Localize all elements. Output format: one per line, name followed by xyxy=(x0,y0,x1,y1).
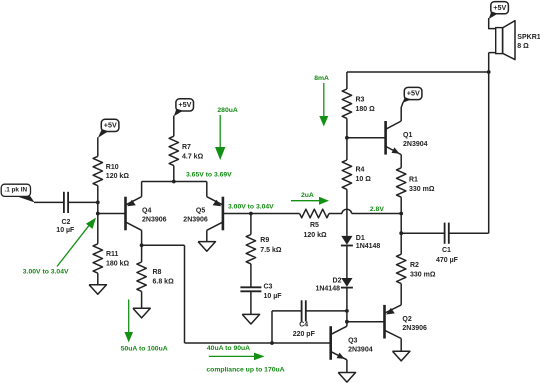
svg-text:2N3906: 2N3906 xyxy=(402,325,427,332)
transistor Q1 2N3904 xyxy=(386,121,402,155)
annotation 40uA to 90uA xyxy=(207,345,265,360)
wire C4 to diode node xyxy=(306,310,347,312)
wire R7 to rail xyxy=(173,166,175,182)
speaker SPKR1 xyxy=(496,21,515,60)
power flag +5V (R7) xyxy=(174,99,194,116)
label C1 xyxy=(436,247,459,264)
label R10 xyxy=(106,164,130,180)
wire up to C4 xyxy=(272,310,301,312)
label R7 xyxy=(182,144,204,160)
svg-text:compliance up to 170uA: compliance up to 170uA xyxy=(206,366,284,373)
svg-text:Q1: Q1 xyxy=(403,132,412,139)
wire R9 node to R5 xyxy=(251,213,300,215)
svg-text:R5: R5 xyxy=(310,222,319,229)
label D2 xyxy=(315,278,341,293)
svg-text:2N3906: 2N3906 xyxy=(142,216,167,223)
wire bottom rail to C4 xyxy=(271,311,273,343)
svg-text:3.00V to 3.04V: 3.00V to 3.04V xyxy=(23,269,69,276)
annotation 2.8V xyxy=(370,206,384,213)
node A dot (C2 junction) xyxy=(96,201,100,205)
power flag +5V (speaker) xyxy=(489,2,509,19)
node dot Q4 collector xyxy=(140,243,144,247)
svg-text:Q3: Q3 xyxy=(348,337,357,344)
wire R5 to hop xyxy=(329,213,342,215)
svg-text:C1: C1 xyxy=(442,247,451,254)
wire collector node right xyxy=(142,244,185,246)
svg-text:2.8V: 2.8V xyxy=(370,206,384,213)
svg-text:R4: R4 xyxy=(356,166,365,173)
label R4 xyxy=(356,166,372,183)
annotation 3.65V to 3.69V xyxy=(186,172,232,179)
node dot Q3 collector junction xyxy=(345,320,349,324)
wire input to C2 xyxy=(34,201,64,203)
svg-text:Q4: Q4 xyxy=(142,207,151,214)
wire node A to Q4 base xyxy=(98,213,125,215)
diode D2 1N4148 xyxy=(341,278,353,288)
annotation 280uA xyxy=(215,107,238,160)
capacitor C3 xyxy=(240,287,261,291)
label Q3 xyxy=(348,337,373,353)
resistor R2 xyxy=(397,254,406,283)
node dot output/R5 xyxy=(399,212,403,216)
svg-text:R8: R8 xyxy=(153,269,162,276)
label R11 xyxy=(106,251,130,267)
svg-text:2uA: 2uA xyxy=(301,192,314,199)
label R2 xyxy=(410,262,436,279)
wire D1 to D2 xyxy=(346,245,348,278)
label R8 xyxy=(153,269,175,285)
svg-text:SPKR1: SPKR1 xyxy=(517,34,540,41)
label C2 xyxy=(56,219,75,234)
node dot speaker/rail xyxy=(487,70,491,74)
power flag +5V (R10) xyxy=(98,119,119,138)
node dot B xyxy=(345,136,349,140)
capacitor C2 xyxy=(64,192,68,213)
label Q2 xyxy=(402,316,427,332)
svg-text:D2: D2 xyxy=(333,278,342,285)
wire node B to R4 xyxy=(346,138,348,160)
wire output node to C1 xyxy=(401,232,444,234)
label C4 xyxy=(293,322,316,339)
wire rail up to speaker xyxy=(488,53,490,72)
svg-text:280uA: 280uA xyxy=(217,107,237,114)
wire D2 to C4 node xyxy=(346,288,348,322)
svg-text:R11: R11 xyxy=(106,251,119,258)
svg-text:R3: R3 xyxy=(356,96,365,103)
node dot C4 junction xyxy=(345,309,349,313)
svg-text:40uA to 90uA: 40uA to 90uA xyxy=(207,345,250,352)
svg-text:+5V: +5V xyxy=(407,89,420,98)
wire hop over column xyxy=(342,209,352,213)
ground (C3) xyxy=(242,314,259,324)
svg-text:10 Ω: 10 Ω xyxy=(356,176,372,183)
transistor Q4 2N3906 xyxy=(126,197,142,231)
resistor R9 xyxy=(246,235,255,264)
svg-text:R2: R2 xyxy=(410,262,419,269)
svg-text:R7: R7 xyxy=(182,144,191,151)
svg-text:R9: R9 xyxy=(260,237,269,244)
ground (Q3) xyxy=(338,373,355,383)
svg-text:+5V: +5V xyxy=(178,100,191,109)
wire C3 to ground xyxy=(250,291,252,314)
svg-text:2N3904: 2N3904 xyxy=(348,346,373,353)
svg-text:C3: C3 xyxy=(264,283,273,290)
svg-text:3.00V to 3.04V: 3.00V to 3.04V xyxy=(228,204,274,211)
transistor Q3 2N3904 xyxy=(331,326,347,360)
wire Q1 collector to +5V xyxy=(401,102,403,121)
wire Q3 emitter to ground xyxy=(346,360,348,373)
wire +5V to R7 xyxy=(173,116,175,137)
annotation 2uA xyxy=(291,192,329,205)
node A dot (base junction) xyxy=(96,212,100,216)
wire Q1 emitter to R1 xyxy=(400,155,402,168)
svg-text:D1: D1 xyxy=(356,235,365,242)
label R5 xyxy=(304,222,328,239)
node dot Q5 base/R9 xyxy=(249,212,253,216)
svg-text:8 Ω: 8 Ω xyxy=(517,43,529,50)
resistor R8 xyxy=(137,262,146,291)
annotation 8mA xyxy=(314,75,329,127)
svg-text:3.65V to 3.69V: 3.65V to 3.69V xyxy=(186,172,232,179)
svg-text:R10: R10 xyxy=(106,164,119,171)
svg-text:C4: C4 xyxy=(299,322,308,329)
wire R2 to Q2 emitter xyxy=(400,284,402,305)
node dot R7-rail xyxy=(172,180,176,184)
label Q4 xyxy=(142,207,167,223)
wire Q3 collector up xyxy=(346,322,348,327)
label Q1 xyxy=(403,132,428,148)
svg-text:+5V: +5V xyxy=(493,3,506,12)
svg-text:4.7 kΩ: 4.7 kΩ xyxy=(182,153,204,160)
svg-text:.1 pk IN: .1 pk IN xyxy=(4,186,27,193)
resistor R10 xyxy=(93,156,102,185)
svg-text:330 mΩ: 330 mΩ xyxy=(409,186,435,193)
ground (Q5) xyxy=(198,242,215,252)
svg-text:1N4148: 1N4148 xyxy=(315,286,340,293)
svg-text:1N4148: 1N4148 xyxy=(356,243,381,250)
wire R4 to D1 xyxy=(346,189,348,236)
wire +5V to R10 xyxy=(97,137,99,156)
resistor R3 xyxy=(342,89,351,118)
wire node to R9 xyxy=(250,214,252,235)
resistor R1 xyxy=(397,168,406,197)
wire Q4 collector down xyxy=(141,230,143,245)
svg-text:6.8 kΩ: 6.8 kΩ xyxy=(153,279,175,286)
svg-text:+5V: +5V xyxy=(104,121,117,130)
svg-text:10 µF: 10 µF xyxy=(56,227,75,234)
node dot output/C1 xyxy=(399,231,403,235)
wire Q5 collector to ground xyxy=(206,230,208,241)
wire right column up xyxy=(488,72,490,233)
wire speaker bottom lead xyxy=(489,52,496,54)
label R3 xyxy=(356,96,376,113)
wire R9 to C3 xyxy=(250,264,252,287)
wire R1 to output node xyxy=(400,197,402,254)
capacitor C4 xyxy=(302,300,306,321)
svg-text:7.5 kΩ: 7.5 kΩ xyxy=(260,247,282,254)
resistor R5 xyxy=(300,209,329,218)
resistor R11 xyxy=(93,244,102,273)
wire diff pair rail xyxy=(142,181,207,183)
svg-text:2N3906: 2N3906 xyxy=(183,216,208,223)
wire Q3 base node to Q2 base xyxy=(347,321,384,323)
wire Q4 collector node to R8 xyxy=(141,245,143,262)
wire Q5 base to R9 node xyxy=(223,213,251,215)
annotation 3.00V to 3.04V (Q5 base) xyxy=(228,204,274,211)
input flag .1 pk IN xyxy=(1,184,34,202)
label C3 xyxy=(264,283,283,300)
power flag +5V (Q1) xyxy=(402,87,422,103)
svg-text:330 mΩ: 330 mΩ xyxy=(410,272,436,279)
svg-text:2N3904: 2N3904 xyxy=(403,141,428,148)
diode D1 1N4148 xyxy=(341,236,353,246)
capacitor C1 xyxy=(445,223,449,244)
wire Q2 collector to ground xyxy=(400,339,402,352)
wire node A to R11 xyxy=(97,214,99,244)
label R9 xyxy=(260,237,282,254)
wire top rail xyxy=(347,71,489,73)
annotation compliance up to 170uA xyxy=(206,366,284,373)
annotation 3.00V to 3.04V (input node) xyxy=(23,218,96,276)
label Q5 xyxy=(183,207,208,223)
transistor Q2 2N3906 xyxy=(385,305,402,339)
svg-text:180 kΩ: 180 kΩ xyxy=(106,261,130,268)
wire R10 to node A xyxy=(97,186,99,214)
annotation 50uA to 100uA xyxy=(121,300,168,353)
label R1 xyxy=(409,177,435,194)
svg-text:470 µF: 470 µF xyxy=(436,257,459,264)
wire R11 to ground xyxy=(97,273,99,285)
node dot C4 bottom xyxy=(270,341,274,345)
svg-text:220 pF: 220 pF xyxy=(293,331,316,338)
label D1 xyxy=(356,235,381,250)
wire hop to output node xyxy=(352,213,402,215)
wire R8 to ground xyxy=(141,291,143,308)
wire Q5 emitter to rail xyxy=(206,182,208,197)
svg-text:120 kΩ: 120 kΩ xyxy=(106,173,130,180)
svg-text:50uA to 100uA: 50uA to 100uA xyxy=(121,345,168,352)
svg-text:R1: R1 xyxy=(409,177,418,184)
svg-text:180 Ω: 180 Ω xyxy=(356,106,376,113)
label SPKR1 xyxy=(517,34,540,50)
wire bottom rail to Q3 base xyxy=(185,342,331,344)
svg-text:C2: C2 xyxy=(62,219,71,226)
wire C1 to right column xyxy=(449,232,489,234)
wire rail to R3 xyxy=(346,72,348,89)
wire Q4 emitter to rail xyxy=(141,182,143,197)
wire R3 to node B xyxy=(346,118,348,137)
resistor R4 xyxy=(342,160,351,189)
wire down to bottom rail xyxy=(184,245,186,343)
transistor Q5 2N3906 xyxy=(207,197,223,231)
resistor R7 xyxy=(169,136,178,165)
svg-text:120 kΩ: 120 kΩ xyxy=(304,232,328,239)
wire C2 to node A xyxy=(68,201,98,203)
svg-text:Q2: Q2 xyxy=(402,316,411,323)
wire node B to Q1 base xyxy=(347,137,385,139)
wire +5V to speaker top xyxy=(489,18,496,29)
ground (Q2) xyxy=(393,351,410,361)
svg-text:8mA: 8mA xyxy=(314,75,329,82)
ground (R11) xyxy=(89,285,106,295)
svg-text:Q5: Q5 xyxy=(196,207,205,214)
svg-text:10 µF: 10 µF xyxy=(264,293,283,300)
ground (R8) xyxy=(133,308,150,318)
